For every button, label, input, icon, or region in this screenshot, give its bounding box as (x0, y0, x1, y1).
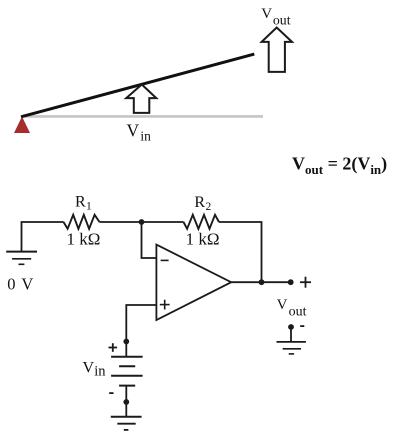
battery - label (109, 392, 113, 394)
output + sign (300, 277, 311, 288)
svg-text:in: in (94, 364, 106, 380)
wire: R1 to R2 through node (100, 221, 184, 223)
op-amp minus sign (161, 259, 169, 261)
svg-text:R: R (75, 194, 86, 211)
svg-text:V: V (261, 6, 272, 22)
resistor R2 (184, 215, 220, 229)
terminal dot output + (288, 279, 294, 285)
svg-text:out: out (273, 13, 291, 28)
svg-text:1 kΩ: 1 kΩ (186, 230, 220, 249)
svg-text:R: R (194, 194, 205, 211)
node dot output junction (259, 279, 265, 285)
battery Vin (111, 357, 143, 386)
terminal dot output - (288, 324, 294, 330)
svg-text:2: 2 (206, 201, 212, 213)
node dot battery - (123, 399, 129, 405)
wire: dot to battery top plate (125, 342, 127, 357)
wire: noninverting input to battery (126, 305, 156, 342)
lever baseline (gray) (24, 115, 263, 118)
wire: - terminal to ground (290, 327, 292, 342)
resistor R1 (64, 215, 100, 229)
node junction dot (inverting input node) (139, 219, 145, 225)
wire: battery bottom to ground (125, 386, 127, 417)
wire: R2 to output node (feedback) (219, 222, 262, 282)
Vin displacement arrow (hollow) (126, 85, 156, 113)
Vout displacement arrow (hollow) (262, 28, 292, 72)
ground (below battery) (111, 417, 142, 430)
svg-text:0 V: 0 V (7, 274, 34, 293)
output - sign (300, 325, 304, 327)
ground (left, 0 V) (6, 252, 37, 265)
svg-text:out: out (289, 304, 307, 319)
op-amp plus sign (160, 300, 170, 310)
op-amp U1 (156, 245, 231, 320)
battery + label (109, 343, 118, 352)
svg-text:in: in (140, 129, 151, 144)
node dot battery + (123, 339, 129, 345)
fulcrum (red triangle) (14, 117, 30, 134)
svg-text:V: V (277, 297, 288, 313)
svg-text:1: 1 (86, 201, 92, 213)
ground (output) (277, 342, 306, 354)
svg-text:V: V (127, 120, 140, 140)
svg-text:V: V (83, 360, 95, 377)
wire: op-amp output to + terminal (231, 281, 291, 283)
lever beam (21, 54, 254, 117)
wire: left input from ground to R1 (22, 222, 64, 252)
wire: node to inverting input (142, 222, 157, 258)
svg-text:1 kΩ: 1 kΩ (67, 230, 101, 249)
